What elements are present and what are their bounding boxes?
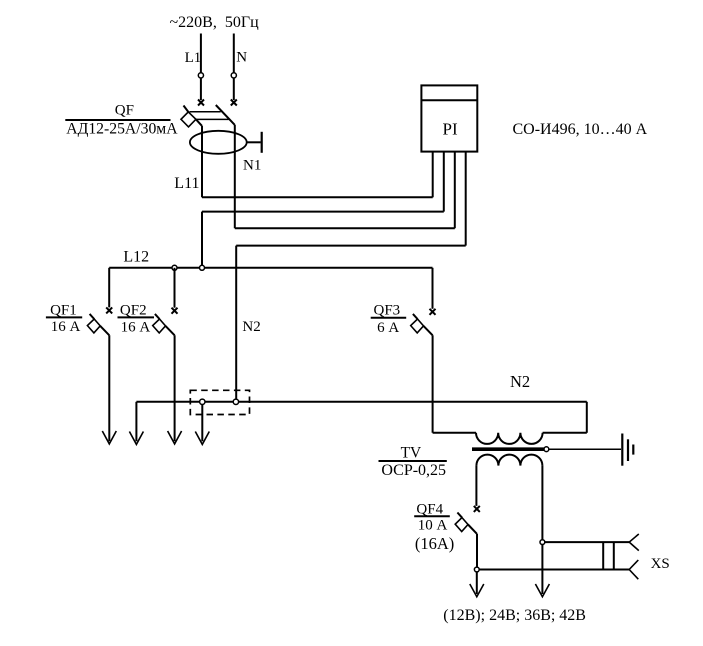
node circle bus tap <box>200 399 205 404</box>
wire core to ground <box>549 448 621 450</box>
svg-text:N2: N2 <box>242 319 260 335</box>
fraction bar QF4 <box>414 515 450 517</box>
breaker QF linkage line 2 <box>196 118 229 120</box>
wire phase return horizontal <box>202 211 444 213</box>
N1 tap bar <box>261 132 263 153</box>
wire QF3 output <box>432 335 434 433</box>
breaker QF blade square <box>181 112 196 127</box>
fraction bar QF <box>65 119 170 121</box>
svg-text:L1: L1 <box>185 50 202 66</box>
wire QF2 output <box>174 335 176 441</box>
svg-text:(16А): (16А) <box>415 534 454 553</box>
wire N upper <box>233 34 235 73</box>
fraction bar QF3 <box>371 317 407 319</box>
svg-text:L12: L12 <box>123 248 149 265</box>
svg-text:TV: TV <box>401 445 422 462</box>
svg-text:~220В, 50Гц: ~220В, 50Гц <box>170 14 260 31</box>
arrow QF1 output <box>102 431 116 444</box>
svg-text:QF2: QF2 <box>120 303 147 319</box>
node circle bus N2 feed <box>233 399 238 404</box>
svg-text:QF4: QF4 <box>416 501 443 517</box>
meter PI box <box>421 85 477 151</box>
wire bus tap drop <box>201 405 203 442</box>
fraction bar QF1 <box>46 316 82 318</box>
wire N2 bus right down <box>586 402 588 433</box>
breaker QF1 blade <box>90 314 110 335</box>
wire L1 upper <box>200 34 202 73</box>
svg-text:N1: N1 <box>243 157 261 173</box>
wire L11 vertical <box>201 126 203 197</box>
svg-text:PI: PI <box>443 120 458 139</box>
connector XS bottom socket chevron <box>629 560 638 579</box>
breaker QF4 contact X <box>474 506 480 512</box>
connector XS bar 1 <box>602 542 604 569</box>
node circle QF4 output <box>474 567 479 572</box>
arrow N2 bus left drop <box>129 432 143 445</box>
arrow QF4 output <box>470 584 484 597</box>
wire N1 horizontal to PI pin3 <box>235 227 455 229</box>
breaker QF3 blade <box>413 314 433 335</box>
terminal circle L1 <box>198 73 203 78</box>
wire secondary right lead <box>541 466 543 594</box>
svg-text:16 А: 16 А <box>51 319 81 335</box>
svg-text:(12В); 24В; 36В; 42В: (12В); 24В; 36В; 42В <box>443 607 586 624</box>
breaker QF3 blade square <box>411 319 424 333</box>
svg-text:СО-И496, 10…40 А: СО-И496, 10…40 А <box>513 121 648 138</box>
node circle L12 feed <box>200 265 205 270</box>
wire N2 bus left drop <box>135 402 137 442</box>
wire transformer primary right lead <box>543 432 587 434</box>
dashed detail box <box>190 390 249 414</box>
svg-text:QF: QF <box>115 102 134 118</box>
wire PI pin4 vertical <box>465 152 467 246</box>
breaker QF3 contact X <box>430 309 436 315</box>
svg-text:XS: XS <box>651 556 670 572</box>
ground bar middle <box>627 439 629 461</box>
wire PI pin2 vertical <box>443 152 445 212</box>
ground bar short <box>632 445 634 455</box>
wire N2 vertical <box>235 246 237 402</box>
fraction bar QF2 <box>118 316 155 318</box>
wire QF1 drop <box>108 268 110 308</box>
svg-text:N2: N2 <box>510 372 530 391</box>
wire L12 bus <box>109 267 432 269</box>
breaker QF contact X on N <box>231 100 237 106</box>
ground bar long <box>621 434 623 466</box>
wire secondary left lead <box>475 466 477 506</box>
node circle L12 QF2 tap <box>172 265 177 270</box>
connector XS top socket chevron <box>629 534 639 551</box>
wire QF1 output <box>108 335 110 441</box>
wire N2 bus <box>136 401 586 403</box>
wire L1 lower <box>200 78 202 100</box>
breaker QF2 contact X <box>172 308 178 314</box>
fraction bar TV <box>379 460 447 462</box>
transformer TV core bar <box>472 447 544 451</box>
wire QF4 output <box>476 534 478 567</box>
breaker QF2 blade square <box>153 319 166 333</box>
terminal circle N <box>231 73 236 78</box>
breaker QF4 blade square <box>455 518 468 532</box>
breaker QF1 contact X <box>106 307 112 313</box>
svg-text:L11: L11 <box>174 175 199 192</box>
wire QF4 output lower <box>476 572 478 594</box>
wire XS top lead <box>545 541 629 543</box>
wire L11 horizontal to PI pin1 <box>202 196 433 198</box>
svg-text:10 А: 10 А <box>418 518 448 534</box>
wire QF3 drop <box>432 268 434 309</box>
meter PI inner line <box>421 99 477 101</box>
connector XS bar 2 <box>613 542 615 569</box>
arrow bus tap drop <box>195 432 209 445</box>
wire phase return vertical to L12 <box>201 212 203 268</box>
breaker QF right blade <box>216 105 235 125</box>
wire N lower <box>233 78 235 100</box>
node circle secondary right tap <box>540 540 545 545</box>
arrow secondary right <box>535 584 549 597</box>
svg-text:16 А: 16 А <box>121 319 151 335</box>
breaker QF2 blade <box>155 314 175 335</box>
node circle core ground tap <box>544 447 549 452</box>
wire QF2 drop <box>174 268 176 308</box>
breaker QF left blade <box>184 106 203 126</box>
svg-text:QF3: QF3 <box>374 303 401 319</box>
breaker QF1 blade square <box>87 319 100 333</box>
svg-text:6 А: 6 А <box>377 320 399 336</box>
breaker QF linkage line 1 <box>189 111 220 113</box>
svg-text:QF1: QF1 <box>50 303 77 319</box>
arrow QF2 output <box>168 431 182 444</box>
svg-text:N: N <box>236 49 247 65</box>
breaker QF differential transformer ellipse <box>190 131 247 154</box>
breaker QF contact X on L1 <box>198 100 204 106</box>
transformer TV secondary winding <box>476 455 542 466</box>
wire PI pin1 vertical <box>432 152 434 198</box>
transformer TV primary winding <box>476 433 543 444</box>
wire PI pin3 vertical <box>454 152 456 229</box>
svg-text:АД12-25А/30мА: АД12-25А/30мА <box>66 120 178 137</box>
svg-text:ОСР-0,25: ОСР-0,25 <box>381 462 446 479</box>
wire transformer primary left lead <box>433 432 476 434</box>
wire neutral return horizontal <box>236 245 466 247</box>
wire N1 vertical <box>234 125 236 228</box>
wire N1 tap <box>247 141 261 143</box>
wire XS bottom lead <box>479 569 629 571</box>
breaker QF4 blade <box>457 513 477 534</box>
